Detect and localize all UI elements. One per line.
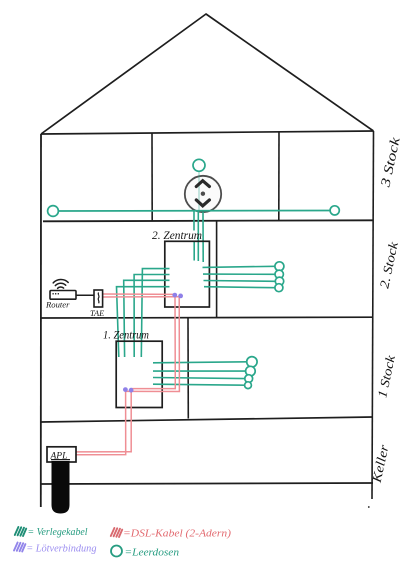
interior wall floor 3 right	[278, 132, 280, 221]
interior wall floor 1	[187, 318, 189, 419]
wire 2. Zentrum to 1. Zentrum 1	[141, 269, 169, 357]
wire 2. Zentrum to floor2 outlet 3	[204, 280, 276, 283]
outlet Leerdose floor 3 left	[48, 206, 59, 217]
outlet Leerdose floor 1 no3	[245, 375, 253, 383]
outlet Leerdose floor 1 no1	[247, 357, 257, 367]
wire 2. Zentrum to 1. Zentrum 3	[124, 280, 170, 357]
svg-text:Router: Router	[45, 300, 70, 310]
outlet Leerdose floor 2 no3	[275, 277, 283, 285]
ceiling line top of house body	[41, 131, 374, 134]
legend Leerdose swatch	[111, 546, 122, 557]
TAE socket box	[94, 290, 103, 307]
bottom line of house	[41, 483, 373, 484]
outlet Leerdose floor 1 no2	[246, 366, 256, 376]
floor line between 2. Stock and 1. Stock	[41, 316, 373, 319]
APL box	[47, 447, 76, 462]
wire 1. Zentrum to floor1 outlet 3	[153, 378, 245, 379]
legend DSL-Kabel swatch	[111, 528, 122, 537]
solder joint Loetverbindung 1. Zentrum right	[129, 388, 134, 393]
APL label underline	[51, 459, 70, 461]
wire 2. Zentrum to 1. Zentrum 2	[134, 275, 169, 358]
switch center dot	[201, 192, 205, 196]
outlet Leerdose above switch	[193, 159, 205, 171]
router box	[50, 291, 76, 300]
solder joint Loetverbindung 2. Zentrum left	[172, 293, 177, 298]
wire switch to 2. Zentrum c	[202, 212, 204, 262]
solder joint Loetverbindung 1. Zentrum left	[123, 387, 128, 392]
outlet Leerdose floor 1 no4	[245, 382, 252, 389]
floor line between 3. Stock and 2. Stock	[43, 220, 373, 221]
right wall	[372, 131, 374, 499]
legend Verlegekabel swatch	[15, 527, 26, 536]
incoming provider cable thick	[52, 461, 70, 514]
wire 1. Zentrum to floor1 outlet 2	[153, 370, 246, 372]
Verlegekabel floor 3 horizontal wire	[58, 210, 330, 213]
wire 2. Zentrum to floor2 outlet 2	[203, 273, 275, 275]
switch chevron down	[196, 200, 209, 206]
network switch circle U1	[185, 176, 221, 212]
wire 1. Zentrum to floor1 outlet 4	[153, 384, 245, 385]
wire 2. Zentrum to floor2 outlet 1	[203, 266, 276, 267]
interior wall floor 3 left	[151, 134, 153, 221]
switch chevron up	[196, 181, 209, 187]
outlet Leerdose floor 2 no1	[275, 262, 284, 271]
legend Loetverbindung swatch	[14, 543, 25, 552]
distribution box 1. Zentrum	[116, 341, 162, 407]
wire 2. Zentrum to 1. Zentrum 4	[117, 287, 170, 357]
svg-text:1. Zentrum: 1. Zentrum	[103, 330, 149, 342]
outlet Leerdose floor 2 no2	[275, 270, 283, 278]
wire switch to 2. Zentrum a	[193, 211, 195, 261]
svg-text:= Verlegekabel: = Verlegekabel	[28, 527, 88, 538]
svg-text:2. Zentrum: 2. Zentrum	[152, 230, 202, 242]
DSL cable pair wire A TAE to APL	[76, 294, 175, 452]
right wall lower dot	[368, 506, 370, 508]
wire 2. Zentrum to floor2 outlet 4	[204, 287, 275, 288]
router leds	[53, 293, 60, 295]
svg-text:TAE: TAE	[90, 309, 104, 318]
outlet Leerdose floor 3 right	[330, 206, 339, 215]
TAE inner contact	[97, 293, 100, 304]
floor line between 1. Stock and Keller	[41, 417, 373, 422]
left wall	[40, 134, 42, 507]
DSL cable pair wire B TAE to APL	[76, 297, 180, 455]
interior wall floor 2	[216, 221, 218, 318]
wire switch to 2. Zentrum b	[197, 211, 199, 261]
solder joint Loetverbindung 2. Zentrum right	[178, 294, 183, 299]
wire router to TAE	[76, 294, 94, 296]
faint cable through switch	[198, 172, 200, 211]
outlet Leerdose floor 2 no4	[275, 284, 283, 292]
svg-text:=Leerdosen: =Leerdosen	[125, 547, 180, 559]
wire 1. Zentrum to floor1 outlet 1	[153, 362, 247, 363]
roof	[41, 14, 374, 134]
svg-text:=DSL-Kabel (2-Adern): =DSL-Kabel (2-Adern)	[123, 528, 231, 540]
wifi symbol	[53, 280, 68, 289]
distribution box 2. Zentrum	[165, 241, 210, 307]
svg-text:= Lötverbindung: = Lötverbindung	[26, 544, 96, 555]
